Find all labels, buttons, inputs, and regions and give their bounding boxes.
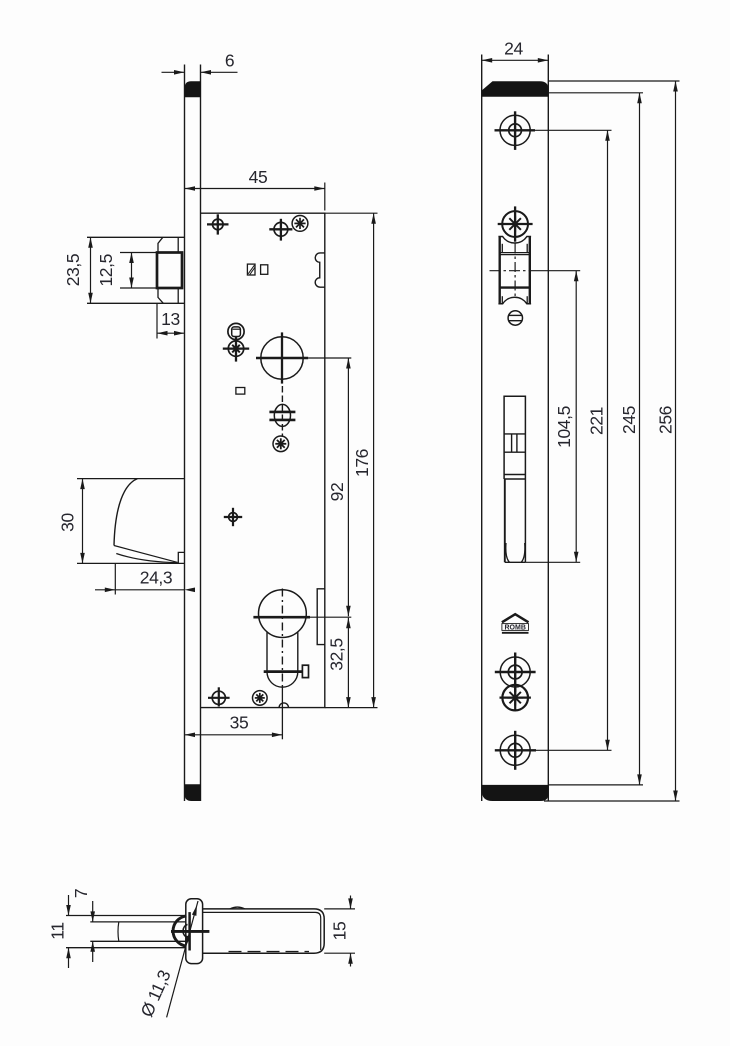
dimension 104,5 top reference line: [536, 270, 580, 272]
latch bolt inner vertical top: [177, 237, 179, 252]
dimension 104,5 line: [575, 271, 577, 563]
dimension 15 extension lines: [324, 908, 355, 910]
lock case side view outline: [203, 909, 325, 953]
svg-text:256: 256: [656, 406, 676, 434]
dimension 6 arrow left: [174, 70, 185, 75]
dimension 92 line: [347, 358, 349, 616]
logo box: [502, 624, 529, 631]
star screw SS1: [223, 337, 249, 362]
deadbolt rod outline: [504, 396, 525, 562]
svg-text:7: 7: [71, 889, 91, 898]
diameter leader line: [167, 901, 198, 1017]
hook bolt bevel line A: [114, 546, 178, 563]
latch bolt inner vertical bottom: [177, 288, 179, 303]
faceplate front left edge: [481, 55, 483, 802]
dimension 13 extension line: [156, 303, 158, 338]
svg-text:35: 35: [230, 713, 249, 733]
follower big circle: [256, 332, 351, 383]
dimension 6 arrow right: [201, 70, 212, 75]
dimension 256 reference lines: [548, 80, 679, 82]
cylinder vertical center line: [281, 589, 283, 688]
latch bolt head bold rectangle: [157, 253, 182, 289]
dimension 176 line: [373, 213, 375, 707]
dimension 12,5 extension lines: [120, 252, 157, 254]
plate latch window double divider: [500, 252, 530, 254]
plate screw hole middle: [495, 653, 536, 692]
dimension 221 line: [607, 130, 609, 750]
latch bar outer top line: [66, 915, 186, 917]
dimension 104,5 bottom reference line: [525, 561, 580, 563]
svg-text:12,5: 12,5: [96, 254, 116, 286]
latch bar inner bottom line: [90, 940, 186, 942]
hook bolt bevel line B: [116, 554, 177, 563]
dimension 32,5 line: [347, 618, 349, 708]
cylinder clamp plate on right edge: [317, 589, 325, 645]
euro cylinder center horizontal line: [253, 616, 310, 619]
latch bolt bottom chamfer: [158, 288, 163, 303]
svg-text:32,5: 32,5: [327, 638, 347, 670]
faceplate edge right line: [200, 65, 202, 802]
lock case top bump: [230, 907, 245, 909]
faceplate front bottom cap (black): [482, 785, 549, 801]
follower nut circle: [228, 323, 244, 339]
bottom edge bump arc: [279, 703, 288, 708]
svg-text:24: 24: [504, 39, 523, 59]
dimension 15 lines and arrows: [350, 896, 352, 909]
dimension 7 lines and arrows: [92, 901, 94, 922]
hook bolt bottom line: [77, 562, 185, 564]
plate latch center line horizontal: [490, 270, 537, 272]
latch bar inner top line: [90, 921, 186, 923]
euro cylinder circle: [259, 590, 307, 638]
screw S1 top-left: [207, 214, 229, 234]
bottom star screw SS3: [252, 691, 267, 706]
plate latch window bottom edge with concave arc: [498, 297, 531, 304]
svg-text:176: 176: [352, 449, 372, 477]
dimension 23,5 line: [90, 237, 92, 303]
dimension 256 line: [675, 81, 677, 801]
deadbolt rod bottom line: [505, 561, 526, 563]
svg-text:23,5: 23,5: [63, 254, 83, 286]
plate latch window inner verticals bottom: [501, 296, 503, 303]
svg-text:11: 11: [48, 922, 68, 939]
right edge cutout notch: [315, 253, 325, 287]
oval screw slot: [269, 386, 295, 437]
plate latch center line vertical: [514, 244, 516, 297]
dimension 24 line: [482, 59, 549, 61]
lock case side hidden dashes: [229, 951, 310, 953]
plate latch window right edge: [529, 237, 531, 304]
plate latch window inner verticals top: [501, 244, 503, 253]
plate torx screw bottom: [500, 685, 531, 711]
euro cylinder bottom arc: [267, 672, 298, 687]
dimension 45 arrows: [185, 186, 196, 191]
svg-text:6: 6: [225, 51, 234, 71]
latch bar step curve: [117, 922, 120, 941]
plate latch window left edge: [499, 237, 501, 304]
plate torx screw: [498, 206, 533, 241]
dimension 221 top reference line: [535, 129, 612, 131]
deadbolt rod left prong arc: [506, 543, 510, 562]
faceplate front right edge: [547, 55, 549, 802]
lock case side inner line: [203, 912, 321, 950]
dimension 13 line: [157, 332, 185, 334]
svg-text:245: 245: [619, 406, 639, 434]
rectangle R2: [261, 265, 268, 275]
faceplate front top cap (black): [482, 81, 549, 97]
dimension 245 reference lines: [548, 92, 643, 94]
dimension 6 line left: [162, 71, 185, 73]
deadbolt rod lower left edge: [504, 479, 506, 562]
deadbolt rod band lines: [504, 474, 525, 476]
deadbolt rod verticals: [511, 434, 513, 452]
dimension 176 extension lines: [325, 212, 378, 214]
dimension 24,3 line: [95, 589, 185, 591]
dimension 221 bottom reference line: [536, 749, 612, 751]
dimension 11 lines and arrows: [68, 895, 70, 916]
latch bolt top outline line: [87, 236, 185, 238]
dimension 12,5 line: [131, 253, 133, 289]
deadbolt rod section line 1: [504, 433, 525, 435]
latch bolt top chamfer: [158, 237, 163, 252]
deadbolt rod right prong arc: [521, 543, 525, 562]
dimension 35 line: [185, 734, 283, 736]
dimension 30 line: [82, 479, 84, 564]
svg-text:15: 15: [330, 922, 350, 941]
hook bolt step at faceplate: [178, 552, 184, 563]
small cross point: [224, 508, 242, 526]
svg-text:24,3: 24,3: [140, 568, 172, 588]
roller outer arc: [173, 916, 186, 946]
torx screw T1 top-right: [292, 216, 308, 232]
roller crosshair: [171, 930, 209, 933]
dimension 245 line: [639, 93, 641, 785]
hatched rectangle R1: [247, 264, 255, 275]
plate latch window top edge with concave arc: [498, 237, 531, 244]
faceplate edge top end cap (black): [185, 81, 201, 97]
dimension 24,3 extension line: [114, 563, 116, 594]
faceplate edge left line: [184, 65, 186, 802]
dimension 45 extension line: [324, 183, 326, 211]
plate latch window thick divider: [500, 286, 530, 288]
latch bar outer bottom line: [66, 947, 186, 949]
star screw SS2: [273, 436, 289, 452]
svg-text:221: 221: [587, 407, 607, 435]
top plate screw hole: [495, 111, 536, 150]
latch bolt bottom outline line: [87, 302, 185, 304]
faceplate edge bottom end cap (black): [185, 784, 201, 801]
dimension 45 line: [185, 188, 325, 190]
hook bolt top line: [77, 478, 185, 480]
euro cylinder throat sides: [266, 632, 268, 672]
roller inner arc: [183, 924, 187, 937]
deadbolt rod section line 2: [504, 451, 525, 453]
svg-text:104,5: 104,5: [554, 406, 574, 448]
bottom screw S3: [208, 687, 230, 706]
screw S2 top-middle: [269, 219, 292, 241]
lock case outline: [201, 213, 325, 707]
euro cylinder lower thick line: [264, 670, 303, 673]
hook bolt left curve: [114, 479, 138, 546]
svg-text:45: 45: [249, 167, 268, 187]
svg-text:ROMB: ROMB: [505, 625, 526, 632]
plate slotted screw: [508, 311, 523, 325]
svg-text:13: 13: [161, 309, 180, 329]
cylinder fixing screw rect: [302, 665, 308, 677]
svg-text:Ø 11,3: Ø 11,3: [136, 967, 174, 1020]
rectangle R3: [236, 388, 245, 395]
plate screw hole bottom: [495, 731, 536, 770]
faceplate side view: [186, 899, 203, 964]
svg-text:30: 30: [58, 513, 78, 532]
logo roof: [502, 614, 529, 622]
svg-text:92: 92: [327, 483, 347, 502]
dimension 6 line right: [201, 71, 238, 73]
logo underline: [502, 632, 529, 634]
